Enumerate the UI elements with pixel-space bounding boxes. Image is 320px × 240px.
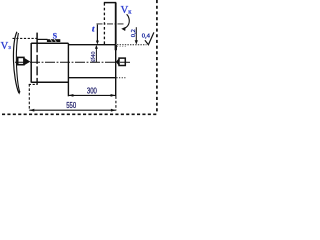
svg-text:Vк: Vк — [121, 5, 133, 16]
svg-text:Vз: Vз — [1, 41, 12, 52]
svg-text:0,4: 0,4 — [142, 33, 151, 40]
svg-text:S: S — [53, 32, 58, 41]
svg-text:550: 550 — [66, 101, 77, 110]
svg-text:0,2: 0,2 — [130, 29, 137, 37]
svg-text:Ø40: Ø40 — [91, 51, 97, 61]
svg-text:300: 300 — [87, 87, 98, 96]
svg-text:t: t — [92, 23, 95, 33]
